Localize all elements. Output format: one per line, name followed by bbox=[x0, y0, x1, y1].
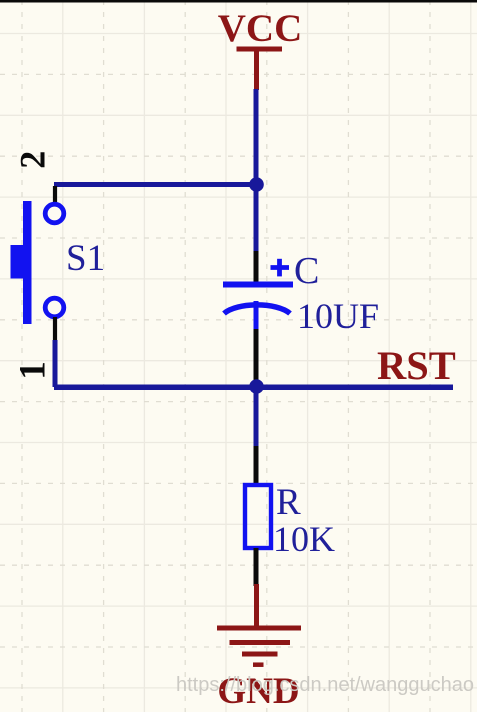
svg-text:10K: 10K bbox=[273, 519, 335, 559]
svg-text:RST: RST bbox=[377, 343, 456, 388]
svg-text:VCC: VCC bbox=[218, 7, 303, 50]
svg-text:R: R bbox=[276, 482, 301, 523]
capacitor C1 top pin (black) bbox=[254, 251, 259, 283]
ground label GND bbox=[217, 671, 299, 712]
junction node A bbox=[249, 177, 264, 192]
switch S1 actuator bar bbox=[23, 201, 32, 324]
net label RST bbox=[377, 343, 456, 388]
power port VCC label bbox=[218, 7, 303, 50]
pin number 2 bbox=[13, 151, 53, 169]
capacitor C bottom curved plate bbox=[224, 305, 290, 314]
switch S1 pin 1 stub bbox=[53, 317, 57, 342]
capacitor C plus sign bbox=[271, 259, 290, 277]
wire junction A to switch pin 2 (horizontal) bbox=[54, 182, 258, 187]
pin number 1 bbox=[13, 361, 54, 380]
capacitor C top plate bbox=[223, 282, 293, 288]
wire junction B to resistor bbox=[254, 391, 259, 448]
svg-text:10UF: 10UF bbox=[297, 296, 379, 336]
switch S1 plunger bbox=[11, 245, 24, 279]
junction node B bbox=[249, 379, 264, 394]
wire switch pin 1 down to RST rail bbox=[53, 340, 58, 387]
resistor R value label 10K bbox=[273, 519, 335, 559]
svg-text:2: 2 bbox=[13, 151, 53, 169]
switch S1 pin 2 contact circle bbox=[45, 204, 64, 223]
power port VCC bar symbol bbox=[237, 49, 283, 90]
switch S1 pin 2 stub bbox=[53, 186, 57, 204]
wire RST rail (horizontal) bbox=[54, 385, 453, 391]
ground symbol bars bbox=[217, 628, 301, 665]
svg-text:C: C bbox=[294, 250, 319, 292]
svg-text:1: 1 bbox=[13, 361, 54, 380]
capacitor C reference label bbox=[294, 250, 319, 292]
svg-text:S1: S1 bbox=[66, 238, 105, 279]
switch S1 pin 1 contact circle bbox=[45, 298, 64, 317]
resistor R reference label bbox=[276, 482, 301, 523]
resistor R body bbox=[245, 485, 271, 548]
capacitor C bottom pin stub (blue) bbox=[254, 301, 259, 330]
wire resistor to ground (dark red stem) bbox=[254, 584, 259, 628]
capacitor C value label 10UF bbox=[297, 296, 379, 336]
resistor R bottom pin (black) bbox=[254, 548, 259, 586]
wire capacitor to junction B (black) bbox=[254, 329, 259, 380]
resistor R top pin (black) bbox=[254, 446, 259, 486]
wire VCC to junction (vertical) bbox=[254, 89, 259, 253]
svg-text:https://blog.csdn.net/wangguch: https://blog.csdn.net/wangguchao bbox=[176, 674, 474, 696]
switch S1 reference label bbox=[66, 238, 105, 279]
